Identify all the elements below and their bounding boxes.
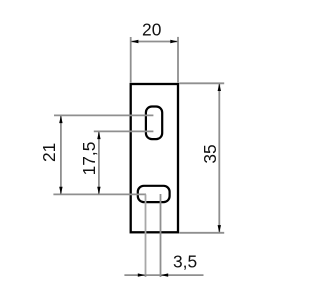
bottom reference leader to bottom slot center — [53, 193, 146, 195]
part outline plate — [131, 84, 178, 232]
dimension 20 extension line right — [177, 37, 179, 83]
dimension 3,5 extension line right — [160, 194, 162, 277]
svg-text:3,5: 3,5 — [173, 251, 197, 271]
dimension 17,5 arrow top — [97, 132, 100, 140]
dimension 20 line — [131, 41, 178, 43]
dimension 3,5 arrow right — [161, 273, 169, 276]
svg-text:21: 21 — [39, 143, 59, 162]
dimension 20 arrow right — [170, 40, 178, 43]
dimension 17,5 line — [98, 131, 100, 194]
dimension 35 extension line top — [179, 82, 224, 84]
dimension 17,5 label — [79, 142, 99, 176]
dimension 35 line — [218, 83, 220, 233]
dimension 21 label — [39, 143, 59, 162]
dimension 3,5 extension line left — [145, 194, 147, 277]
dimension 21 arrow top — [59, 116, 62, 124]
svg-text:20: 20 — [142, 20, 161, 40]
dimension 3,5 label — [173, 251, 197, 271]
dimension 3,5 line — [124, 274, 203, 276]
dimension 17,5 leader to top slot lower center — [94, 130, 154, 132]
dimension 21 arrow bottom — [59, 187, 62, 195]
top slot hole — [146, 107, 162, 140]
svg-text:17,5: 17,5 — [79, 142, 99, 176]
dimension 20 label — [142, 20, 161, 40]
dimension 21 leader to top slot upper center — [54, 114, 153, 116]
dimension 17,5 arrow bottom — [97, 187, 100, 195]
dimension 3,5 arrow left — [138, 273, 146, 276]
bottom slot hole — [138, 186, 170, 202]
svg-text:35: 35 — [200, 144, 220, 163]
dimension 35 arrow top — [218, 84, 221, 92]
dimension 20 extension line left — [130, 37, 132, 83]
dimension 20 arrow left — [131, 40, 139, 43]
dimension 35 label — [200, 144, 220, 163]
dimension 35 extension line bottom — [179, 232, 224, 234]
dimension 21 line — [60, 115, 62, 194]
dimension 35 arrow bottom — [218, 225, 221, 233]
